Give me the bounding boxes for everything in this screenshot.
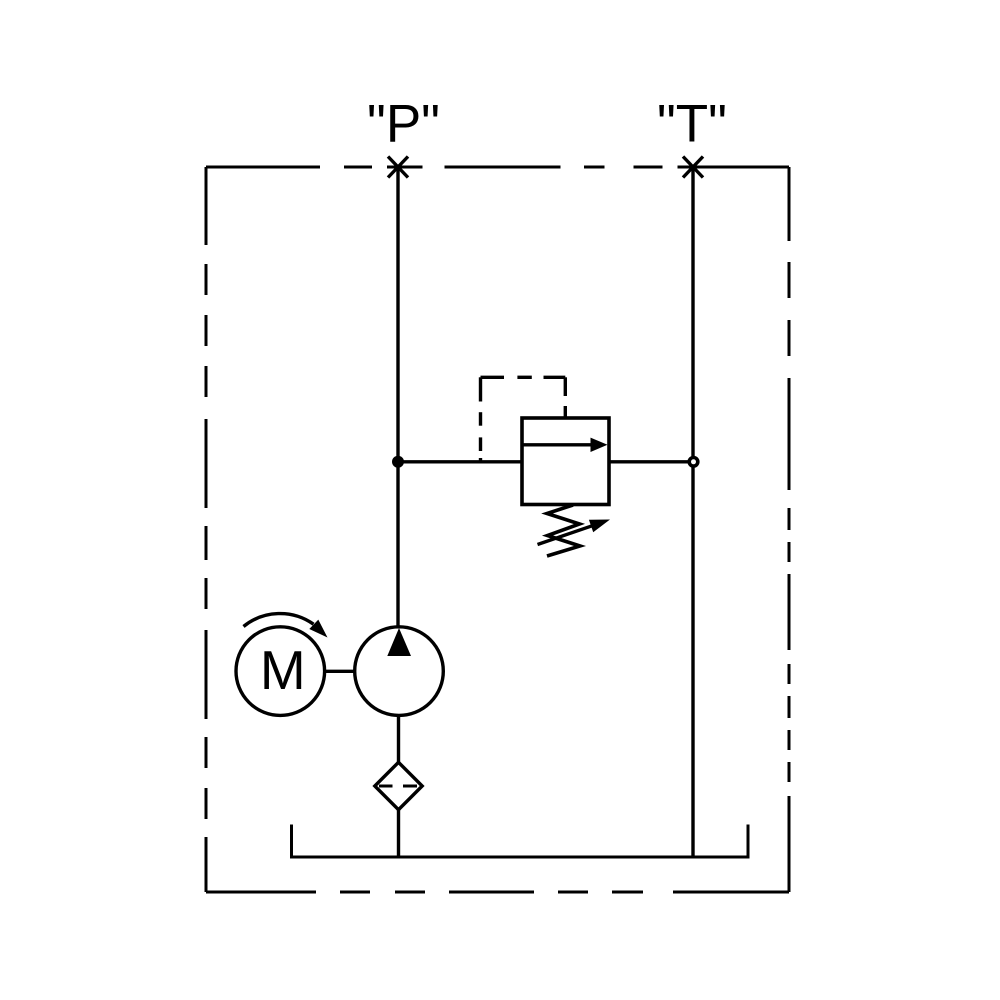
tank symbol bbox=[290, 825, 750, 858]
wire: P pressure line vertical bbox=[396, 167, 399, 628]
pump outlet triangle bbox=[387, 628, 411, 656]
node junction circle on T line bbox=[689, 458, 698, 467]
enclosure dashed border: right side bbox=[788, 167, 791, 892]
motor rotation arc bbox=[244, 614, 314, 627]
wire: filter to tank bbox=[397, 810, 400, 857]
enclosure dashed border: bottom side bbox=[206, 891, 789, 894]
pilot line dashed: right vertical bbox=[564, 377, 567, 396]
pilot line dashed: left vertical down to main line bbox=[479, 377, 482, 462]
pump circle bbox=[355, 627, 444, 716]
relief valve flow arrow bbox=[524, 438, 608, 452]
port P X-symbol bbox=[388, 157, 408, 178]
wire: pump to filter bbox=[397, 715, 400, 762]
pilot line dashed: top horizontal bbox=[481, 376, 566, 379]
wire: T tank line vertical bbox=[691, 167, 694, 857]
svg-text:"T": "T" bbox=[657, 95, 727, 154]
pilot line dashed: stub from valve top bbox=[564, 406, 567, 419]
filter diamond bbox=[375, 762, 422, 809]
filter dashed element bbox=[379, 785, 417, 788]
node junction dot on P line bbox=[392, 456, 404, 468]
wire: relief valve to T line bbox=[609, 460, 688, 463]
svg-text:"P": "P" bbox=[367, 95, 440, 154]
svg-text:M: M bbox=[260, 639, 306, 701]
relief valve spring bbox=[547, 505, 580, 556]
relief valve adjustment arrow bbox=[538, 520, 611, 545]
relief valve V1 body box bbox=[522, 418, 609, 505]
enclosure dashed border: top side bbox=[206, 166, 789, 169]
motor M circle bbox=[236, 627, 325, 716]
enclosure dashed border: left side bbox=[205, 167, 208, 892]
motor rotation arrowhead bbox=[309, 620, 327, 638]
wire: main horizontal line node to relief valve bbox=[398, 460, 522, 463]
shaft line motor to pump bbox=[325, 670, 355, 673]
port T X-symbol bbox=[683, 157, 703, 178]
